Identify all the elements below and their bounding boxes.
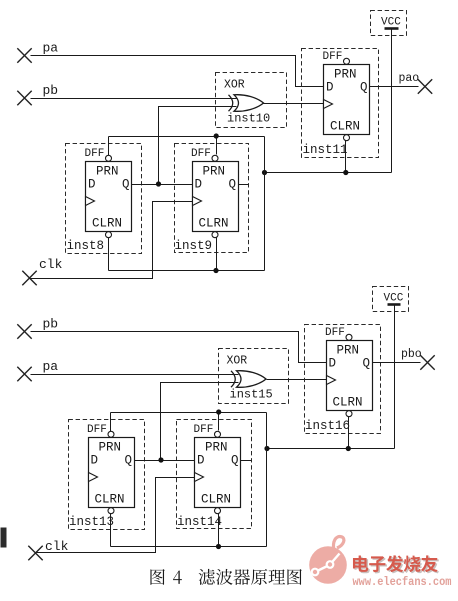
DFF inst14 dashed box: [177, 420, 252, 529]
svg-text:pb: pb: [43, 83, 59, 98]
inst13 CLRN bubble: [108, 508, 114, 514]
inst14 PRN bubble: [215, 431, 221, 437]
XOR gate inst15 dashed box: [219, 349, 289, 404]
svg-text:DFF: DFF: [323, 51, 343, 63]
wire XOR output to clock of inst16: [267, 379, 327, 381]
D flip-flop inst9 body: [193, 162, 239, 232]
wire CLRN of inst16 to VCC rail: [348, 417, 350, 449]
svg-text:DFF: DFF: [194, 424, 214, 436]
svg-text:inst14: inst14: [177, 515, 222, 529]
wire node Qinst8 up to XOR lower input: [159, 107, 237, 185]
input pin clk: [28, 546, 42, 560]
svg-text:www.elecfans.com: www.elecfans.com: [353, 575, 452, 589]
wire pb to XOR upper input: [31, 98, 237, 100]
wire VCC rail horizontal to preset/clear net: [267, 448, 395, 450]
svg-text:PRN: PRN: [205, 441, 228, 455]
inst11 clock triangle: [324, 100, 333, 109]
watermark text 电子发烧友: [353, 555, 368, 571]
svg-text:CLRN: CLRN: [201, 493, 231, 507]
inst9 PRN bubble: [212, 155, 218, 161]
DFF inst9 dashed box: [175, 144, 249, 253]
wire node Qinst13 up to XOR lower input: [161, 383, 239, 461]
wire CLRN of inst14 to clear net: [218, 514, 220, 547]
inst14 clock triangle: [195, 473, 204, 482]
svg-text:DFF: DFF: [85, 148, 105, 160]
wire PRN of inst8 to preset net: [108, 137, 110, 156]
svg-text:inst8: inst8: [67, 239, 105, 253]
svg-text:PRN: PRN: [334, 68, 357, 82]
svg-text:D: D: [195, 178, 203, 192]
watermark logo inner trace: [315, 554, 340, 573]
D flip-flop inst13 body: [89, 438, 135, 508]
watermark text 电子发烧友 shadow: [354, 557, 369, 573]
wire preset net horizontal: [109, 136, 265, 138]
inst14 CLRN bubble: [215, 508, 221, 514]
svg-text:VCC: VCC: [381, 17, 401, 29]
junction on VCC rail at vertical bus: [264, 446, 269, 451]
inst13 PRN bubble: [108, 431, 114, 437]
inst16 PRN bubble: [346, 334, 352, 340]
input pin pb: [17, 91, 31, 105]
svg-text:XOR: XOR: [224, 79, 245, 92]
wire Q stub of inst9: [239, 184, 249, 186]
svg-text:CLRN: CLRN: [330, 120, 360, 134]
wire vertical bus preset-clear net: [266, 413, 268, 547]
svg-text:Q: Q: [360, 81, 368, 95]
left edge scan speckle: [1, 528, 7, 548]
svg-text:pao: pao: [399, 72, 420, 85]
wire clk to clock of inst14: [37, 478, 195, 553]
input pin clk: [22, 271, 36, 285]
svg-text:clk: clk: [45, 539, 69, 554]
wire PRN of inst13 to preset net: [110, 413, 112, 432]
junction VCC rail / CLRN inst16: [346, 446, 351, 451]
svg-text:CLRN: CLRN: [92, 217, 122, 231]
watermark elecfans logo disc: [309, 546, 347, 584]
svg-text:pa: pa: [43, 359, 59, 374]
XOR gate inst15 input arc: [231, 371, 235, 387]
VCC power T-bar: [385, 27, 399, 30]
svg-text:inst16: inst16: [305, 419, 350, 433]
wire Q of inst11 to output pin: [370, 86, 419, 88]
VCC power T-bar: [388, 303, 401, 306]
junction clear net / CLRN inst9: [213, 268, 218, 273]
wire Q of inst13 to D of inst14: [135, 460, 195, 462]
svg-text:D: D: [329, 357, 337, 371]
wire CLRN of inst13 to clear net: [110, 514, 112, 547]
wire CLRN of inst11 to VCC rail: [345, 141, 347, 173]
wire CLRN of inst8 to clear net: [108, 238, 110, 271]
wire clear net horizontal: [109, 270, 265, 272]
junction preset net / PRN inst9: [214, 133, 219, 138]
D flip-flop inst14 body: [195, 438, 241, 508]
svg-text:PRN: PRN: [99, 441, 122, 455]
power symbol VCC dashed box: [371, 11, 407, 36]
svg-text:CLRN: CLRN: [333, 396, 363, 410]
junction VCC rail / CLRN inst11: [343, 170, 348, 175]
watermark logo via B: [327, 561, 334, 568]
svg-text:PRN: PRN: [96, 165, 119, 179]
input pin pb: [17, 324, 31, 338]
power symbol VCC dashed box: [373, 287, 409, 312]
wire preset net horizontal: [111, 412, 267, 414]
svg-text:inst11: inst11: [303, 143, 348, 157]
wire pa to XOR upper input: [31, 374, 239, 376]
XOR gate inst10 input arc: [229, 95, 233, 111]
input pin pa: [17, 367, 31, 381]
inst16 CLRN bubble: [346, 411, 352, 417]
svg-text:D: D: [326, 81, 334, 95]
svg-text:Q: Q: [122, 178, 130, 192]
wire VCC rail vertical: [391, 30, 393, 173]
wire Q of inst16 to output pin: [373, 362, 421, 364]
inst9 clock triangle: [193, 197, 202, 206]
wire clk to clock of inst9: [31, 202, 193, 279]
svg-text:Q: Q: [231, 454, 239, 468]
svg-text:PRN: PRN: [337, 344, 360, 358]
junction clear net / CLRN inst14: [216, 544, 221, 549]
junction Q of inst8: [156, 181, 161, 186]
svg-text:inst9: inst9: [175, 239, 213, 253]
svg-text:DFF: DFF: [87, 424, 107, 436]
svg-text:XOR: XOR: [227, 355, 248, 368]
svg-text:inst10: inst10: [227, 112, 270, 126]
svg-text:pb: pb: [43, 317, 59, 332]
XOR gate inst10 dashed box: [216, 73, 287, 128]
output DFF inst11 dashed box: [302, 49, 379, 158]
svg-text:DFF: DFF: [191, 148, 211, 160]
svg-text:VCC: VCC: [384, 293, 404, 305]
svg-text:D: D: [88, 178, 96, 192]
input pin pa: [17, 48, 31, 62]
wire pa to D of inst11: [31, 56, 324, 87]
output DFF inst16 dashed box: [305, 325, 381, 434]
svg-text:Q: Q: [363, 357, 371, 371]
svg-text:CLRN: CLRN: [95, 493, 125, 507]
wire clear net horizontal: [111, 546, 267, 548]
wire PRN of inst14 to preset net: [218, 413, 220, 431]
svg-text:pa: pa: [43, 41, 59, 56]
wire VCC rail vertical: [394, 306, 396, 449]
svg-text:D: D: [197, 454, 205, 468]
XOR gate inst10 body: [234, 95, 264, 112]
wire vertical bus preset-clear net: [264, 137, 266, 271]
inst11 CLRN bubble: [344, 135, 350, 141]
svg-text:D: D: [91, 454, 99, 468]
inst11 PRN bubble: [344, 58, 350, 64]
junction on VCC rail at vertical bus: [262, 170, 267, 175]
wire Q of inst8 to D of inst9: [132, 184, 193, 186]
svg-text:PRN: PRN: [203, 165, 226, 179]
svg-text:pbo: pbo: [401, 348, 422, 361]
svg-text:CLRN: CLRN: [199, 217, 229, 231]
wire CLRN of inst9 to clear net: [216, 238, 218, 271]
wire XOR output to clock of inst11: [264, 103, 324, 105]
junction Q of inst13: [158, 457, 163, 462]
D flip-flop inst8 body: [86, 162, 132, 232]
DFF inst13 dashed box: [69, 420, 145, 530]
inst8 CLRN bubble: [106, 232, 112, 238]
svg-text:Q: Q: [229, 178, 237, 192]
inst8 clock triangle: [86, 197, 95, 206]
inst9 CLRN bubble: [212, 232, 218, 238]
svg-text:DFF: DFF: [325, 327, 345, 339]
D flip-flop inst16 body: [327, 341, 373, 411]
XOR gate inst15 body: [237, 371, 267, 388]
junction preset net / PRN inst14: [216, 409, 221, 414]
inst13 clock triangle: [89, 473, 98, 482]
caption 图 4 滤波器原理图: [150, 569, 164, 585]
D flip-flop inst11 body: [324, 65, 370, 135]
svg-text:inst13: inst13: [69, 515, 114, 529]
watermark logo stem curl: [333, 536, 343, 550]
wire Q stub of inst14: [241, 460, 252, 462]
DFF inst8 dashed box: [66, 144, 142, 254]
wire PRN of inst9 to preset net: [216, 137, 218, 155]
inst8 PRN bubble: [106, 155, 112, 161]
wire pb to D of inst16: [31, 332, 327, 363]
svg-text:clk: clk: [39, 257, 63, 272]
inst16 clock triangle: [327, 376, 336, 385]
watermark logo via A: [312, 569, 319, 576]
wire VCC rail horizontal to preset/clear net: [265, 172, 392, 174]
svg-text:Q: Q: [125, 454, 133, 468]
svg-text:inst15: inst15: [230, 388, 273, 402]
